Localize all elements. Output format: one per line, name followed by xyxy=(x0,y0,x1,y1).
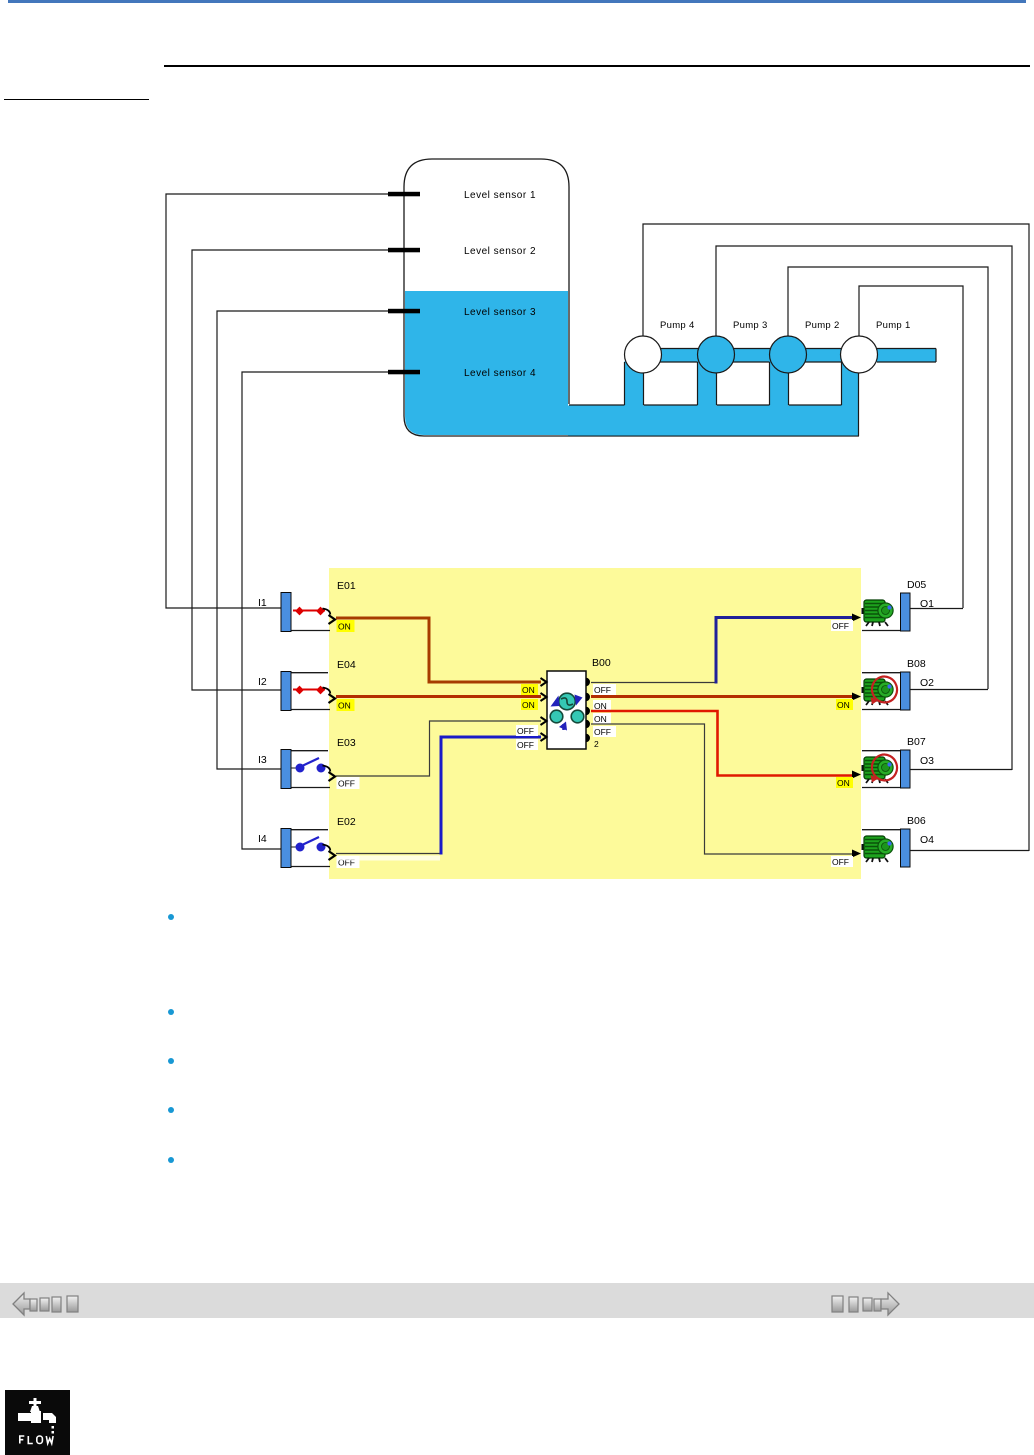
O1 input arrow xyxy=(852,614,861,622)
svg-text:OFF: OFF xyxy=(517,740,534,750)
B00 input state labels xyxy=(521,684,538,695)
bullet 4 xyxy=(168,1107,174,1113)
level sensor 1 tick xyxy=(388,192,420,197)
wire I3 to B00.3 xyxy=(336,721,541,776)
pump 3 xyxy=(698,336,735,373)
nav left squares xyxy=(30,1296,78,1312)
svg-text:I4: I4 xyxy=(258,833,267,845)
pipe outlines xyxy=(569,349,936,437)
svg-text:OFF: OFF xyxy=(832,857,849,867)
svg-text:ON: ON xyxy=(522,685,535,695)
svg-text:OFF: OFF xyxy=(832,621,849,631)
input block E04 (I2) xyxy=(281,672,335,711)
output block B06 (O4) xyxy=(862,829,910,867)
wire O2 to pump xyxy=(910,689,988,691)
svg-text:B06: B06 xyxy=(907,815,926,827)
wire B00.4 to O4 xyxy=(591,724,852,854)
nav left arrow xyxy=(13,1293,30,1315)
svg-text:OFF: OFF xyxy=(338,779,355,789)
svg-text:Level sensor 3: Level sensor 3 xyxy=(464,307,536,318)
svg-text:2: 2 xyxy=(594,739,599,749)
O3 input arrow xyxy=(852,771,861,779)
wire sensor 1 to I1 xyxy=(166,194,388,608)
svg-text:I1: I1 xyxy=(258,597,267,609)
nav right arrow xyxy=(881,1293,899,1315)
bullet 3 xyxy=(168,1058,174,1064)
svg-text:ON: ON xyxy=(594,714,607,724)
wire pump 1 control xyxy=(859,286,963,608)
svg-text:O4: O4 xyxy=(920,834,934,846)
state label ON xyxy=(337,699,355,711)
nav right squares xyxy=(832,1296,881,1312)
bullet 5 xyxy=(168,1157,174,1163)
state label OFF xyxy=(337,856,360,868)
input block E02 (I4) xyxy=(281,829,335,868)
output block B07 (O3) xyxy=(862,750,910,788)
svg-text:ON: ON xyxy=(338,622,351,632)
wire B00.3 to O3 xyxy=(591,711,852,776)
svg-text:Pump 1: Pump 1 xyxy=(876,320,911,331)
wire I1 to B00.1 xyxy=(336,618,541,682)
svg-text:Level sensor 1: Level sensor 1 xyxy=(464,190,536,201)
svg-text:OFF: OFF xyxy=(594,685,611,695)
state label OFF xyxy=(337,777,360,789)
svg-text:Level sensor 4: Level sensor 4 xyxy=(464,368,536,379)
level sensor 3 tick xyxy=(388,309,420,314)
input block E03 (I3) xyxy=(281,750,335,789)
level sensor 2 tick xyxy=(388,248,420,253)
svg-text:Level sensor 2: Level sensor 2 xyxy=(464,246,536,257)
wire O1 to pump xyxy=(910,608,963,610)
FLOW text xyxy=(20,1436,53,1444)
motor icon O4 xyxy=(862,836,894,862)
svg-text:ON: ON xyxy=(522,700,535,710)
svg-text:OFF: OFF xyxy=(517,726,534,736)
svg-text:ON: ON xyxy=(837,778,850,788)
svg-text:E02: E02 xyxy=(337,816,356,828)
bullet 2 xyxy=(168,1009,174,1015)
svg-text:O2: O2 xyxy=(920,677,934,689)
state label OFF xyxy=(831,856,853,867)
top blue bar xyxy=(8,0,1026,3)
wire sensor 3 to I3 xyxy=(217,311,388,769)
svg-text:E01: E01 xyxy=(337,580,356,592)
wire O3 to pump xyxy=(910,769,1012,771)
wire sensor 4 to I4 xyxy=(242,372,388,849)
svg-text:ON: ON xyxy=(338,701,351,711)
svg-text:E03: E03 xyxy=(337,737,356,749)
pump 1 xyxy=(841,336,878,373)
tank water xyxy=(405,291,936,436)
wire O4 to pump xyxy=(910,850,1029,852)
input block E01 (I1) xyxy=(281,593,335,632)
svg-text:Pump 3: Pump 3 xyxy=(733,320,768,331)
pump 2 xyxy=(770,336,807,373)
wire pump 2 control xyxy=(788,267,988,689)
state label ON xyxy=(836,777,853,788)
B00 icon xyxy=(550,693,584,730)
state label OFF xyxy=(831,620,853,631)
bullet 1 xyxy=(168,914,174,920)
motor icon O1 xyxy=(862,600,894,626)
motor icon O2 xyxy=(862,673,901,705)
O2 input arrow xyxy=(852,693,861,701)
wire I2 to B00.2 xyxy=(336,695,541,698)
wire pump 3 control xyxy=(716,246,1012,770)
tank outline xyxy=(404,159,859,436)
O4 input arrow xyxy=(852,850,861,858)
wire sensor 2 to I2 xyxy=(192,250,388,690)
wire pump 4 control xyxy=(643,224,1029,851)
svg-text:Pump 4: Pump 4 xyxy=(660,320,695,331)
output block B08 (O2) xyxy=(862,672,910,710)
navigation bar xyxy=(0,1283,1034,1318)
FLOW logo xyxy=(5,1390,70,1455)
faucet icon xyxy=(18,1398,56,1434)
wire B00.2 to O2 xyxy=(591,695,852,698)
state label ON xyxy=(836,699,853,710)
wire B00.1 to O1 xyxy=(591,682,716,684)
svg-text:D05: D05 xyxy=(907,579,926,591)
heading underline xyxy=(4,99,149,100)
level sensor 4 tick xyxy=(388,370,420,375)
motor icon O3 xyxy=(862,751,901,783)
program area background xyxy=(329,568,861,879)
B00 output state labels xyxy=(593,684,616,695)
svg-text:ON: ON xyxy=(594,701,607,711)
svg-text:E04: E04 xyxy=(337,659,356,671)
svg-text:I3: I3 xyxy=(258,754,267,766)
svg-text:B08: B08 xyxy=(907,658,926,670)
svg-text:Pump 2: Pump 2 xyxy=(805,320,840,331)
svg-text:B00: B00 xyxy=(592,657,611,669)
svg-text:B07: B07 xyxy=(907,736,926,748)
pump 4 xyxy=(625,336,662,373)
svg-text:I2: I2 xyxy=(258,676,267,688)
state label ON xyxy=(337,620,355,632)
function block B00 xyxy=(541,671,591,749)
svg-text:ON: ON xyxy=(837,700,850,710)
svg-text:O3: O3 xyxy=(920,755,934,767)
wire I4 to B00.4 xyxy=(337,856,440,861)
svg-text:OFF: OFF xyxy=(594,727,611,737)
header rule xyxy=(164,65,1030,67)
output block D05 (O1) xyxy=(862,593,910,631)
